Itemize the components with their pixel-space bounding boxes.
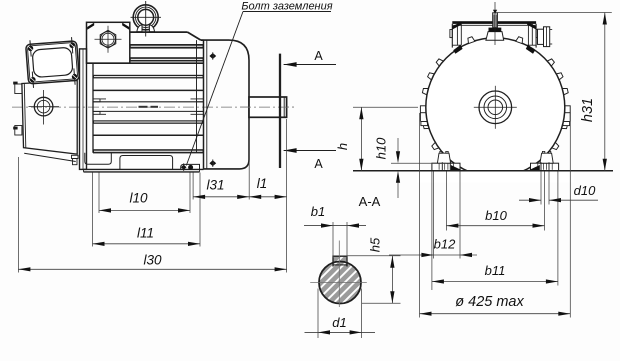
- svg-text:b10: b10: [485, 208, 507, 223]
- svg-text:d1: d1: [332, 315, 346, 330]
- svg-text:l30: l30: [143, 253, 162, 268]
- svg-text:l31: l31: [206, 178, 224, 193]
- svg-text:l10: l10: [129, 191, 148, 206]
- svg-text:d10: d10: [574, 183, 596, 198]
- svg-text:b11: b11: [485, 263, 506, 278]
- svg-text:Болт заземления: Болт заземления: [241, 1, 332, 13]
- svg-text:l11: l11: [137, 226, 154, 241]
- svg-text:A: A: [314, 157, 323, 171]
- svg-text:h31: h31: [580, 98, 596, 122]
- svg-text:h: h: [335, 143, 350, 150]
- svg-text:A-A: A-A: [359, 194, 381, 209]
- svg-text:b12: b12: [434, 237, 456, 252]
- svg-text:l1: l1: [257, 176, 268, 191]
- svg-text:A: A: [314, 49, 323, 63]
- svg-text:b1: b1: [311, 204, 325, 219]
- svg-text:h5: h5: [368, 237, 383, 252]
- svg-text:h10: h10: [374, 137, 389, 159]
- svg-text:ø 425 max: ø 425 max: [455, 294, 524, 310]
